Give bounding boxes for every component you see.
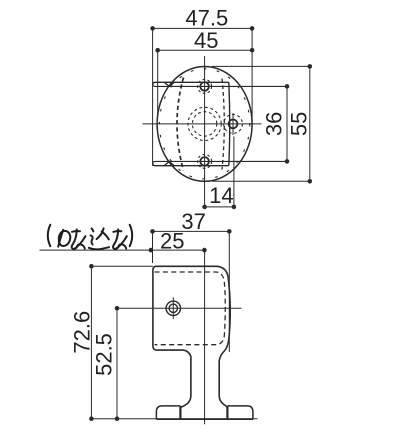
foot edge right (bold) (226, 406, 228, 419)
ext 55 bottom (212, 180, 310, 182)
ext 72.6 top (91, 265, 152, 267)
base mound left (156, 406, 180, 419)
svg-text:25: 25 (160, 229, 184, 254)
horizontal center line (117, 307, 242, 309)
dim 55 line (309, 66, 311, 181)
bottom tab break triangle (164, 162, 174, 166)
hole vertical cross (172, 297, 174, 319)
kana mi2 stroke1 (113, 230, 121, 233)
base mound right (227, 406, 253, 419)
ext line 47.5 left (152, 28, 154, 166)
bottom screw hole dashed circle (198, 154, 212, 168)
side hole dashed circle (224, 115, 243, 134)
hidden inner ellipse (dashed) (159, 69, 249, 179)
top screw hole dashed circle (198, 79, 212, 93)
bottom tab top line + 36 extension (153, 161, 287, 163)
kana mi1 stroke2 (72, 229, 85, 249)
svg-text:52.5: 52.5 (92, 333, 117, 376)
right cap solid curve (228, 82, 231, 165)
foot edge left (bold) (179, 406, 181, 419)
kanji komu zig (91, 235, 93, 244)
side hole vertical cross (232, 113, 234, 135)
kana no stroke2 (59, 231, 71, 246)
flange ellipse outline (157, 67, 252, 182)
right hidden dashed curve (222, 79, 224, 170)
kana mi2 stroke3 (115, 236, 127, 249)
kana mi1 stroke1 (72, 230, 80, 233)
svg-text:14: 14 (209, 183, 233, 208)
left hidden waist curve (177, 78, 184, 171)
dim 45 line (158, 49, 252, 51)
baseline ext (91, 418, 257, 420)
dim 36 line (286, 86, 288, 161)
top screw hole (200, 82, 209, 91)
kana mi1 stroke3 (74, 236, 86, 249)
head + right stem outline (153, 266, 230, 419)
top tab bottom line + 36 extension (153, 85, 287, 87)
center line vertical (204, 56, 206, 207)
paren left (48, 225, 51, 246)
base bottom edge (156, 418, 253, 420)
ext 37 left (152, 231, 154, 263)
dim 25 line + leader under text (40, 249, 205, 251)
ext line right (47.5/45) (251, 28, 253, 124)
kana mi2 stroke2 (113, 229, 126, 249)
dim 72.6 line (90, 266, 92, 418)
dim dots top view (150, 26, 155, 31)
bottom tab bottom line (153, 163, 229, 165)
dim dots side view (150, 229, 155, 234)
bottom screw hole (200, 157, 209, 166)
svg-text:37: 37 (181, 209, 205, 234)
kanji komu sweep (89, 247, 109, 249)
label (のみ込み) drawn as paths (48, 225, 132, 250)
kana no stroke1 (58, 230, 63, 247)
ext 14 right (233, 137, 235, 207)
vertical center line (204, 250, 206, 424)
top tab top line (153, 82, 229, 84)
ext 55 top (212, 65, 310, 67)
svg-text:36: 36 (262, 112, 287, 136)
top tab break triangle (164, 82, 174, 86)
dim 14 line (205, 206, 234, 208)
head bottom-left + left stem outline (153, 346, 191, 419)
ext 37 right (228, 231, 230, 352)
center dashed circle inner (192, 112, 216, 136)
svg-text:47.5: 47.5 (185, 5, 228, 30)
hidden socket dashed outline (155, 272, 226, 345)
set screw hole outer (166, 301, 180, 315)
side set-screw hole (229, 120, 238, 129)
svg-text:45: 45 (194, 28, 218, 53)
kanji komu iru-right (102, 231, 109, 239)
dim 37 line (153, 230, 230, 232)
kanji komu dot (92, 228, 94, 231)
set screw hole inner (169, 304, 177, 312)
kanji komu iru-left (97, 228, 104, 239)
svg-text:55: 55 (287, 112, 312, 136)
center line horizontal (143, 123, 262, 125)
dim 52.5 line (116, 308, 118, 418)
center dashed circle outer (188, 107, 221, 140)
paren right (130, 225, 133, 246)
dim 47.5 line (153, 27, 253, 29)
ext line 45 left (157, 50, 159, 116)
